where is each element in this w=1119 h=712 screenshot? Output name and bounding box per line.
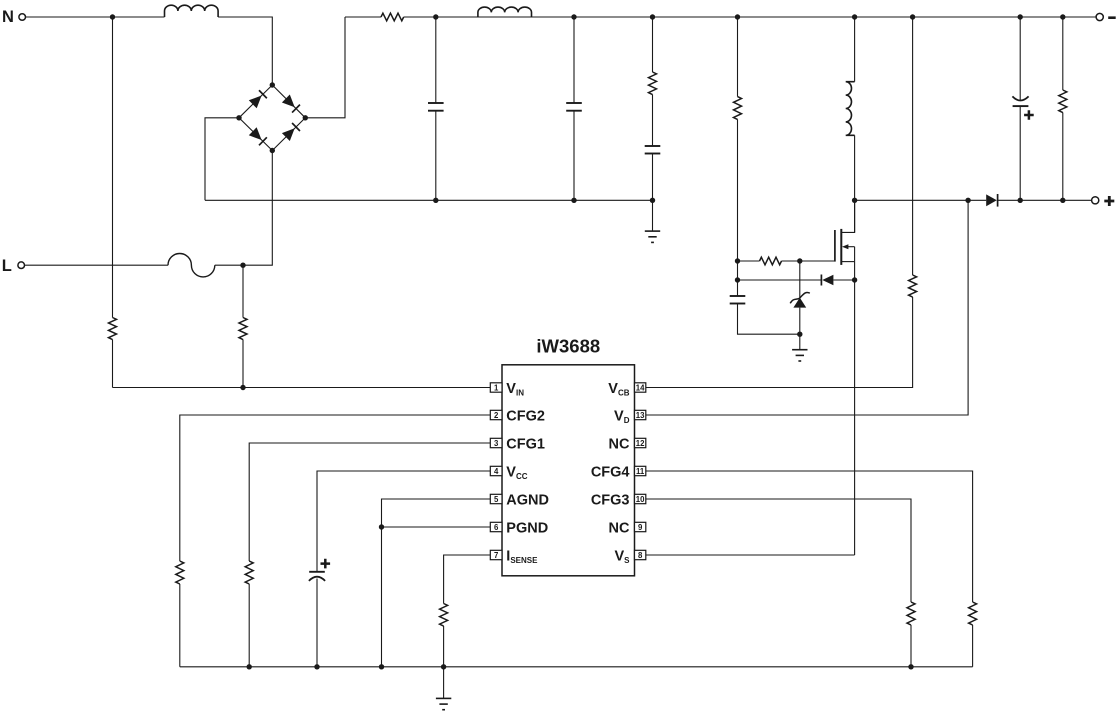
MOSFET Q1 source stub [841,261,854,263]
node drain-output [852,198,857,203]
node C2-rail [571,198,576,203]
wire C5 to output [1019,106,1021,200]
wire R6 to VIN rail [242,340,244,388]
pin 4 box [490,466,502,475]
wire junction to inductor L1 [113,16,165,18]
wire bus to L3 [854,17,856,82]
svg-text:6: 6 [494,523,499,532]
svg-text:4: 4 [494,467,499,476]
wire bus to R8 [1062,17,1064,90]
resistor R12 CFG4 [969,602,977,625]
node R10-rail [247,664,252,669]
wire D2 cathode to + terminal [998,199,1092,201]
wire R10 to bottom rail [248,584,250,667]
wire bus to R7 [912,17,914,275]
capacitor C3 [645,145,661,147]
bridge diode upper-left [249,96,262,109]
node bus-R8 [1060,14,1065,19]
resistor R7 VCB [909,275,917,297]
svg-text:L: L [2,257,12,275]
wire VCC pin 4 [317,471,490,572]
wire R7 to pin 14 [646,297,913,388]
fuse F1 [168,254,215,277]
svg-text:N: N [2,8,14,26]
wire R3 down to gate network [737,119,739,280]
wire zener node to ground [799,334,801,350]
node gate-zener [797,258,802,263]
wire C1 top [435,17,437,103]
node bridge left [236,115,241,120]
wire output row to D2 [855,199,987,201]
wire zener to anode node [799,308,801,335]
resistor R3 (snubber) [734,97,742,120]
IC U1 iW3688 body [502,365,635,576]
resistor R11 sense [440,604,448,627]
node source-D1 [852,277,857,282]
pin 8 box [635,550,646,559]
wire L tap down to R6 [242,265,244,317]
svg-text:PGND: PGND [506,520,548,536]
node C6-rail [314,664,319,669]
wire C2 bottom [573,111,575,201]
svg-text:3: 3 [494,439,499,448]
wire VIN rail to pin 1 [113,387,491,389]
wire C2 top [573,17,575,103]
wire R11 to bottom rail [443,626,445,667]
svg-text:iW3688: iW3688 [536,336,600,357]
capacitor C6 VCC electrolytic [309,571,325,573]
svg-text:7: 7 [494,551,498,560]
wire C4 to zener anode row [738,304,800,335]
resistor R5 [109,318,117,340]
wire L to fuse [25,264,168,266]
svg-text:NC: NC [609,520,630,536]
resistor R1 fusible [381,13,404,21]
pin 1 box [490,383,502,392]
wire to gate resistor [738,260,760,262]
node bus-VCB [910,14,915,19]
MOSFET Q1 channel bar [840,229,842,265]
zener Z1 (pointing up) [793,298,806,308]
node AGND-rail [379,664,384,669]
inductor L2 (filter) [478,7,532,17]
svg-text:8: 8 [638,551,643,560]
wire rail to earth [652,200,654,231]
label + output [1104,196,1114,206]
svg-text:CFG1: CFG1 [506,436,545,452]
node C1-rail [433,198,438,203]
svg-text:10: 10 [636,495,645,504]
wire body to source [854,247,856,262]
node C3-rail [650,198,655,203]
wire zener cathode [799,261,801,298]
wire VD pin 13 to output tap [646,200,968,415]
wire R2 to C3 [652,95,654,147]
svg-text:AGND: AGND [506,492,549,508]
wire AGND pin 5 [382,499,491,667]
capacitor C4 snubber [730,295,746,297]
wire diode anode row [738,279,822,281]
svg-text:CFG2: CFG2 [506,408,545,424]
bridge diode lower-right [282,128,295,141]
node bus-L3 [852,14,857,19]
wire bus to R3 [737,17,739,97]
wire C3 to rail [652,154,654,201]
node bridge top [270,82,275,87]
node bridge right [303,115,308,120]
node sense-ground [441,664,446,669]
capacitor C5 output electrolytic [1012,96,1028,100]
label - output [1108,16,1116,19]
wire R12 to bottom rail [972,625,974,667]
pin 10 box [635,494,646,503]
wire N-junction down to VIN rail [112,17,114,318]
wire C6 to bottom rail [316,579,318,667]
pin 11 box [635,466,646,475]
diode D2 freewheel (pointing right) [986,194,997,206]
MOSFET Q1 gate bar [834,230,836,262]
node bus-C5 [1018,14,1023,19]
pin 12 box [635,438,646,447]
node zener anode [797,332,802,337]
node bus-R2 [650,14,655,19]
MOSFET Q1 body arrow [846,246,854,248]
svg-text:14: 14 [636,383,645,392]
ground earth (input filter) [645,230,660,232]
ground (zener) [792,349,807,351]
capacitor C1 [428,102,444,104]
svg-text:CFG3: CFG3 [591,492,630,508]
svg-text:11: 11 [636,467,645,476]
MOSFET Q1 drain stub [841,200,854,232]
wire to fusible resistor [345,16,381,18]
pin 13 box [635,410,646,419]
node N-junction [110,14,115,19]
wire DC- rail left section [205,199,653,201]
wire CFG4 pin 11 [646,471,973,602]
svg-text:2: 2 [494,411,499,420]
terminal - output [1096,13,1103,20]
pin 9 box [635,522,646,531]
resistor R13 CFG3 [907,602,915,625]
wire R13 to bottom rail [910,625,912,667]
bridge rectifier BR1 diamond [239,85,305,151]
resistor R2 [649,72,657,95]
wire bottom rail [180,666,973,668]
bridge diode upper-right [282,95,295,108]
wire rail to ground stub [443,667,445,699]
terminal + output [1092,197,1099,204]
pin 2 box [490,410,502,419]
wire to MOSFET gate [800,260,835,262]
svg-text:CFG4: CFG4 [591,464,630,480]
wire snubber cap top [737,280,739,296]
resistor R10 CFG1 [245,561,253,584]
wire N to junction [26,16,113,18]
wire CFG3 pin 10 [646,499,911,602]
inductor L1 (EMI filter) [165,5,219,17]
svg-text:NC: NC [609,436,630,452]
wire bridge left vertex to DC- rail [205,118,239,201]
svg-text:12: 12 [636,439,645,448]
wire bus to R2 [652,17,654,72]
node bridge bottom [270,148,275,153]
wire VS pin 8 [646,554,855,556]
pin 5 box [490,494,502,503]
wire bus to C5 [1019,17,1021,100]
diode D1 (gate, pointing left) [820,275,822,286]
wire rectified bus [404,16,1097,18]
wire R9 to bottom rail [179,584,181,667]
node C5-output [1018,198,1023,203]
resistor R9 CFG2 [176,561,184,584]
node bus-C2 [571,14,576,19]
wire fuse to bridge bottom [215,151,272,266]
wire CFG1 pin 3 [249,443,490,561]
wire R4 to zener node [782,260,800,262]
wire L1 to bridge top [218,17,272,85]
terminal L [18,262,25,269]
svg-text:5: 5 [494,495,499,504]
node bus-R3 [735,14,740,19]
capacitor C2 [566,102,582,104]
wire CFG2 pin 2 [180,415,491,561]
wire R5 to VIN rail [112,340,114,388]
resistor R8 output [1059,90,1067,113]
pin 6 box [490,522,502,531]
svg-text:13: 13 [636,411,645,420]
terminal N [19,14,26,21]
inductor L3 (buck) [846,82,855,136]
node bus-C1 [433,14,438,19]
wire source down to VS [854,262,856,555]
ground (signal) [436,697,451,699]
svg-text:1: 1 [494,383,499,392]
wire ISENSE pin 7 [444,555,491,604]
wire bridge right vertex up to rectified bus [305,17,345,118]
node snubber-gate junction [735,258,740,263]
wire R8 to output [1062,113,1064,201]
pin 14 box [635,383,646,392]
svg-text:9: 9 [638,523,643,532]
resistor R4 gate [760,257,782,265]
bridge diode lower-left [249,127,262,140]
wire PGND pin 6 [382,526,491,528]
pin 3 box [490,438,502,447]
wire L3 to drain node [854,135,856,232]
node AGND-PGND [379,524,384,529]
resistor R6 [239,318,247,340]
wire C1 bottom [435,111,437,201]
pin 7 box [490,550,502,559]
node R13-rail [908,664,913,669]
node VIN-R6 [240,385,245,390]
node snubber-diode junction [735,277,740,282]
node VD tap [965,198,970,203]
wire D1 to source [833,279,854,281]
node R8-output [1060,198,1065,203]
node L-R5 tap [240,263,245,268]
